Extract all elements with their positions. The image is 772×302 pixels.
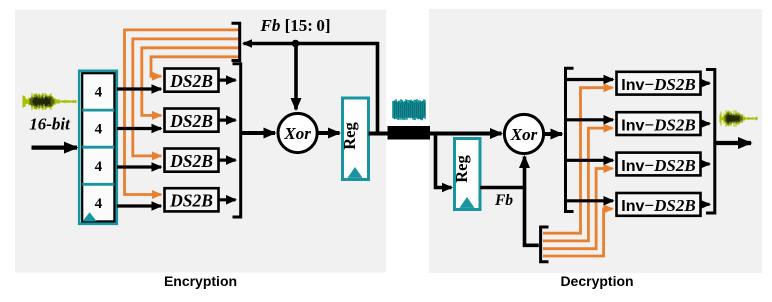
wire stack to DS2B 1 bbox=[117, 87, 161, 90]
svg-text:16-bit: 16-bit bbox=[29, 115, 71, 134]
svg-text:Reg: Reg bbox=[340, 122, 359, 150]
node Fb junction bbox=[292, 40, 300, 48]
stack clock triangle bbox=[83, 212, 97, 221]
orange feedback wire to DS2B 3 bbox=[133, 39, 240, 156]
stack cell labels 4 bbox=[95, 85, 103, 212]
svg-text:4: 4 bbox=[95, 85, 103, 101]
bracket decrypt distribute bbox=[566, 68, 574, 211]
wire final output arrow bbox=[715, 141, 751, 145]
bracket DS2B outputs collect bbox=[233, 64, 241, 217]
decryption panel bbox=[429, 9, 762, 273]
orange feedback wire to DS2B 2 bbox=[142, 48, 240, 116]
svg-text:Decryption: Decryption bbox=[560, 273, 633, 289]
wire Fb top: corner to bracket with left arrow bbox=[244, 44, 378, 134]
wire Reg2 output to Xor2 bottom bbox=[480, 157, 525, 188]
block Inv-DS2B 3 bbox=[617, 153, 701, 176]
svg-text:DS2B: DS2B bbox=[169, 71, 213, 91]
wire Reg1 output to ciphertext bbox=[369, 132, 435, 136]
wire Fb junction down to Xor1 bbox=[294, 44, 298, 110]
bracket Fb split bottom bbox=[541, 227, 549, 262]
ciphertext block bbox=[388, 126, 431, 140]
wire ciphertext to Xor2 bbox=[430, 132, 502, 136]
svg-text:Reg: Reg bbox=[452, 155, 471, 183]
orange feedback wire to DS2B 1 bbox=[151, 57, 240, 76]
orange feedback wire to DS2B 4 bbox=[125, 30, 240, 195]
block DS2B 1 bbox=[165, 69, 219, 92]
svg-text:Xor: Xor bbox=[283, 124, 311, 143]
wire bracket to Xor1 bbox=[241, 131, 275, 135]
wire Xor1 to Reg1 bbox=[317, 131, 339, 135]
orange Fb wire to Inv-DS2B 3 bbox=[543, 169, 613, 249]
wire stack to DS2B 2 bbox=[117, 127, 161, 130]
bracket decrypt collect bbox=[706, 70, 715, 214]
wire input arrow bbox=[32, 146, 78, 150]
svg-text:4: 4 bbox=[95, 196, 103, 212]
wire bracket to Inv-DS2B 3 bbox=[566, 159, 614, 162]
svg-text:Fb: Fb bbox=[494, 192, 513, 209]
wire stack to DS2B 3 bbox=[117, 165, 161, 168]
output audio waveform bbox=[720, 110, 757, 127]
wire bracket to Inv-DS2B 2 bbox=[566, 118, 614, 121]
wire Inv-DS2B 4 output bbox=[701, 203, 710, 206]
svg-text:DS2B: DS2B bbox=[169, 151, 213, 171]
svg-text:4: 4 bbox=[95, 122, 103, 138]
register stack (input shift register) bbox=[79, 71, 117, 224]
wire Fb down to bottom bracket bbox=[525, 188, 539, 246]
block DS2B 3 bbox=[165, 149, 219, 172]
wire Inv-DS2B 3 output bbox=[701, 162, 710, 165]
input audio waveform bbox=[23, 93, 76, 110]
op Xor2 circle bbox=[504, 114, 543, 153]
wire Xor2 to input bracket bbox=[544, 132, 562, 136]
wire DS2B 2 output bbox=[219, 118, 236, 121]
block DS2B 2 bbox=[165, 109, 219, 132]
op Xor1 circle bbox=[278, 113, 317, 152]
bracket orange feedback split bbox=[232, 23, 240, 60]
wire branch down to Reg2 bbox=[436, 134, 452, 188]
svg-text:4: 4 bbox=[95, 159, 103, 175]
wire Inv-DS2B 1 output bbox=[701, 82, 710, 85]
encryption panel bbox=[15, 10, 386, 273]
wire bracket to Inv-DS2B 1 bbox=[566, 78, 614, 81]
wire DS2B 1 output bbox=[219, 78, 236, 81]
wire DS2B 4 output bbox=[219, 198, 236, 201]
orange Fb wire to Inv-DS2B 4 bbox=[543, 209, 613, 256]
block Inv-DS2B 1 bbox=[617, 72, 701, 95]
svg-text:DS2B: DS2B bbox=[169, 111, 213, 131]
svg-text:DS2B: DS2B bbox=[169, 191, 213, 211]
wire Inv-DS2B 2 output bbox=[701, 122, 710, 125]
wire bracket to Inv-DS2B 4 bbox=[566, 199, 614, 202]
svg-text:Inv−DS2B: Inv−DS2B bbox=[621, 115, 695, 134]
block Inv-DS2B 4 bbox=[617, 193, 701, 216]
svg-text:Fb [15: 0]: Fb [15: 0] bbox=[260, 16, 331, 35]
encrypted signal scribble bbox=[393, 99, 425, 120]
svg-text:Xor: Xor bbox=[510, 125, 538, 144]
block DS2B 4 bbox=[165, 188, 219, 211]
block Inv-DS2B 2 bbox=[617, 112, 701, 135]
svg-text:Inv−DS2B: Inv−DS2B bbox=[621, 156, 695, 175]
block Reg2 bbox=[452, 139, 480, 210]
svg-text:Inv−DS2B: Inv−DS2B bbox=[621, 75, 695, 94]
orange Fb wire to Inv-DS2B 2 bbox=[543, 128, 613, 241]
svg-text:Inv−DS2B: Inv−DS2B bbox=[621, 196, 695, 215]
wire DS2B 3 output bbox=[219, 159, 236, 162]
orange Fb wire to Inv-DS2B 1 bbox=[543, 88, 613, 234]
wire stack to DS2B 4 bbox=[117, 204, 161, 207]
block Reg1 bbox=[340, 98, 369, 180]
svg-text:Encryption: Encryption bbox=[164, 273, 237, 289]
